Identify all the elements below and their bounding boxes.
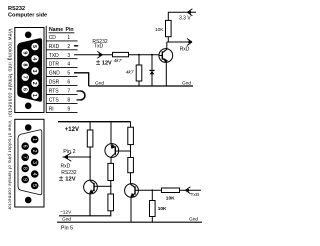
J2 pin 1 [31,136,39,144]
J1 pin 6 [21,86,29,93]
connector J2 shell [15,119,44,207]
wire R4 to node B [110,181,112,195]
wire R2 to node A [130,145,132,158]
row separator [46,67,77,69]
svg-text:12V: 12V [102,60,112,66]
row separator [46,40,77,42]
J1 pin 1 [31,92,39,99]
J2 pin 6 [21,142,29,150]
resistor R1 vertical [87,130,93,147]
svg-text:3: 3 [31,70,37,73]
J1 pin 8 [21,61,29,68]
svg-text:RxD: RxD [61,164,71,170]
svg-text:7: 7 [21,76,27,79]
arrowhead on TxD wire [97,51,102,58]
wire rail to R1 [89,122,91,130]
row separator [46,76,77,78]
svg-text:Pin: Pin [66,27,74,33]
svg-text:Name: Name [49,27,63,33]
svg-text:TxD: TxD [191,192,200,198]
node junction 4k7 [138,54,140,56]
svg-text:RS232: RS232 [61,170,77,176]
arrowhead TxD pointing left [185,187,190,194]
transistor Q1 [159,49,173,63]
transistor Q3 NPN left [84,180,98,194]
pin 2 stub wire [74,45,78,47]
RTS-CTS jumper stub 8 [77,99,81,101]
connector J2 D-shell outline [18,130,42,195]
row separator [46,85,77,87]
svg-text:1: 1 [31,138,37,141]
J2 pin 8 [21,165,29,173]
wire Q4 emitter to ground [130,197,132,222]
wire collector up [166,42,168,49]
svg-text:Pin 5: Pin 5 [61,225,73,231]
svg-text:DSR: DSR [49,80,60,86]
svg-text:5: 5 [67,71,70,77]
wire diode to ground [151,74,153,86]
svg-text:DTR: DTR [49,62,60,68]
J1 pin 9 [22,49,29,56]
transistor Q4 NPN right [125,184,139,198]
J2 pin 3 [31,159,39,167]
arrowhead pin 2 pointing left [63,153,71,162]
svg-text:View looking into female conne: View looking into female connector [7,29,13,118]
svg-text:Pin 2: Pin 2 [63,149,75,155]
wire Q3 emitter down to -12V [59,193,90,215]
svg-text:10K: 10K [158,206,167,212]
wire R7 to TxD [180,189,202,191]
svg-text:TXD: TXD [49,53,59,59]
node B [110,185,112,187]
wire node to R6 [151,190,153,200]
J1 pin 5 [31,43,39,50]
svg-text:6: 6 [21,145,27,148]
wire TxD from pin 3 [74,54,113,56]
J1 pin 4 [31,55,39,62]
wire Q2 base to divider [118,150,130,152]
svg-text:3: 3 [31,161,37,164]
svg-text:Gnd: Gnd [95,80,104,86]
wire rail to Q2 emitter [110,122,112,144]
svg-text:2: 2 [31,150,37,153]
resistor 4k7 vertical [136,65,142,81]
svg-text:9: 9 [67,107,70,113]
svg-text:GND: GND [49,71,61,77]
svg-text:2: 2 [67,44,70,50]
svg-text:5: 5 [31,184,37,187]
svg-text:+12V: +12V [65,127,79,133]
svg-text:−12V: −12V [60,209,72,215]
svg-text:RXD: RXD [49,44,60,50]
wire down to diode [151,55,153,71]
svg-text:8: 8 [67,98,70,104]
resistor 10K vertical [166,20,172,36]
svg-text:±: ± [96,58,101,67]
wire collector node up to resistor [167,37,169,42]
wire Q4 base right [138,189,161,191]
connector J1 mounting hole top [25,32,32,39]
svg-text:Gnd: Gnd [62,217,71,223]
connector J2 mounting hole bottom [25,197,32,204]
J1 pin 3 [31,67,39,74]
row separator [46,58,77,60]
resistor R5 vertical [108,194,114,211]
svg-text:RI: RI [49,107,54,113]
svg-text:CD: CD [49,35,57,41]
wire down to 4k7 vertical [138,55,140,65]
wire resistor to base [129,54,160,56]
svg-text:9: 9 [21,178,27,181]
connector J2 mounting hole top [25,124,32,131]
svg-text:RTS: RTS [49,89,60,95]
wire rail to R2 [130,122,132,128]
svg-text:RxD: RxD [180,46,190,52]
J1 pin 7 [21,74,29,81]
row separator [46,49,77,51]
svg-text:Gnd: Gnd [189,216,198,222]
RTS-CTS jumper stub 7 [77,90,81,92]
wire 3.3V supply [168,12,196,20]
RTS-CTS jumper arc [81,91,85,100]
svg-text:Computer side: Computer side [8,13,47,19]
ground rail top section [89,85,193,87]
J2 pin 5 [31,182,39,190]
wire to pin 2 arrow [63,156,91,158]
svg-text:12V: 12V [65,177,75,183]
svg-text:RS232: RS232 [8,6,25,12]
wire R5 to -12V line [90,211,111,216]
svg-text:8: 8 [21,64,27,67]
resistor 4k7 horizontal [113,52,129,56]
pin table header underline [49,32,75,34]
svg-text:4: 4 [31,173,37,176]
+12V rail [58,121,131,123]
wire emitter to ground [165,62,167,87]
row separator [46,103,77,105]
svg-text:7: 7 [21,156,27,159]
J2 pin 7 [21,154,29,162]
svg-text:4: 4 [67,62,70,68]
svg-text:4k7: 4k7 [126,70,134,76]
diode D1 [149,70,154,72]
wire R3 to Q3 collector [130,173,132,184]
wire node B to Q1b base [97,185,111,187]
svg-text:CTS: CTS [49,98,60,104]
resistor R3 vertical [128,158,134,173]
pin table left border [45,26,47,113]
svg-text:10K: 10K [155,27,164,33]
svg-text:2: 2 [31,82,37,85]
resistor R2 vertical [128,127,134,144]
svg-text:10K: 10K [166,195,175,201]
svg-text:TxD: TxD [94,44,104,50]
resistor R6 10K vertical [150,201,156,217]
svg-text:±: ± [59,174,64,183]
title: RS232 Computer side [8,6,47,19]
row separator [46,112,77,114]
connector J1 D-shell body [18,39,42,102]
wire RxD branch [167,41,192,43]
resistor R7 10K horizontal [162,188,180,193]
transistor Q2 PNP [105,144,119,158]
svg-text:3: 3 [67,53,70,59]
resistor R4 vertical [108,163,114,180]
wire R6 to ground [151,217,153,223]
wire pin 5 to ground [74,73,89,86]
node TxD divider [151,189,153,191]
svg-text:7: 7 [67,89,70,95]
ground rail bottom [57,221,202,223]
J2 pin 4 [31,170,39,178]
J2 pin 9 [21,176,29,184]
wire 4k7 to ground [138,81,140,86]
svg-text:6: 6 [21,88,27,91]
J2 pin 2 [31,147,39,155]
svg-text:1: 1 [67,35,70,41]
svg-text:Gnd: Gnd [182,81,191,87]
svg-text:9: 9 [22,51,28,54]
svg-text:3.3 V: 3.3 V [179,15,191,21]
node pin2 [89,156,91,158]
svg-text:8: 8 [21,167,27,170]
row separator [46,94,77,96]
arrowhead RxD pointing right [187,39,192,46]
connector J1 mounting hole bottom [25,103,32,110]
svg-text:6: 6 [67,80,70,86]
svg-text:4k7: 4k7 [114,58,122,64]
svg-text:4: 4 [31,57,37,60]
svg-text:View of solder pins of female: View of solder pins of female connector [8,121,13,211]
J1 pin 2 [31,80,39,87]
node junction diode [151,54,153,56]
wire R1 to node [89,147,91,181]
svg-text:5: 5 [31,45,37,48]
wire Q2 collector down [110,157,112,164]
svg-text:1: 1 [31,94,37,97]
arrowhead 3.3V pointing left [187,9,192,16]
connector J1 shell [15,28,44,113]
